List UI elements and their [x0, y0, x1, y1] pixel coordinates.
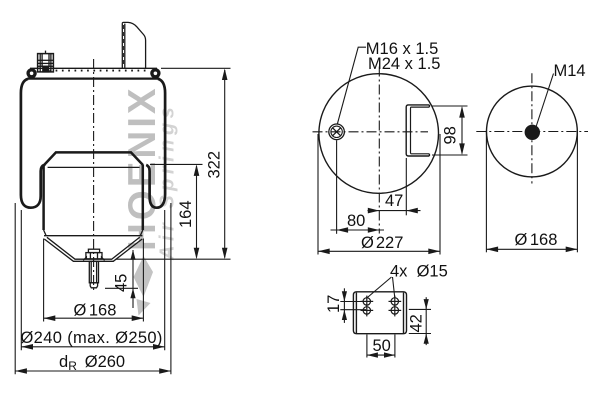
dimension lines for top view [318, 106, 468, 255]
svg-text:164: 164 [177, 200, 195, 228]
bottom circle labels [515, 62, 586, 249]
Ø260 dim [14, 203, 16, 374]
top view dimension labels [347, 40, 460, 252]
side view dimension labels [21, 151, 224, 373]
50 [366, 335, 368, 358]
bottom bracket view with 4 holes [353, 277, 406, 334]
svg-text:47: 47 [385, 192, 403, 210]
bracket channel [406, 105, 429, 156]
45 dim [132, 250, 134, 308]
svg-text:Air Springs: Air Springs [157, 103, 179, 261]
98 [432, 105, 468, 107]
dish / bottom plate [44, 230, 46, 235]
Ø227 [317, 134, 319, 255]
top view of air spring (plate circle) [313, 47, 439, 233]
tab top right [122, 22, 145, 68]
arrowheads for circle dims [486, 247, 577, 253]
stud and nut [83, 249, 104, 288]
arrowheads for bracket dims [342, 291, 429, 358]
air fitting [38, 51, 54, 72]
svg-text:42: 42 [408, 314, 426, 332]
bottom view circle with M14 stud [476, 73, 588, 183]
bracket labels [325, 263, 448, 356]
top plate [30, 67, 157, 69]
svg-text:98: 98 [442, 126, 460, 144]
svg-text:Ø168: Ø168 [515, 231, 558, 249]
piston outline [44, 152, 143, 165]
svg-text:M14: M14 [554, 62, 586, 80]
17 [340, 301, 366, 303]
bellows outline right [146, 79, 165, 208]
42 [409, 308, 431, 310]
dimension lines for bracket view [340, 288, 431, 357]
common bottom extension [116, 258, 231, 260]
leader to M16/M24 [337, 47, 366, 124]
svg-text:M24 x 1.5: M24 x 1.5 [368, 55, 440, 73]
80 [336, 140, 338, 234]
322 dim [161, 67, 231, 69]
47 [405, 158, 407, 215]
watermark PHOENIX logo [121, 85, 179, 315]
arrowheads for top view dims [318, 106, 465, 254]
svg-text:Ø240 (max. Ø250): Ø240 (max. Ø250) [21, 329, 163, 347]
valve [329, 124, 345, 140]
164 dim [150, 163, 203, 165]
svg-text:322: 322 [206, 151, 224, 179]
svg-text:45: 45 [113, 274, 131, 292]
svg-text:17: 17 [325, 295, 343, 313]
dimension lines for bottom view circle [486, 131, 577, 253]
svg-text:Ø168: Ø168 [74, 302, 117, 320]
centerline of side view [93, 59, 95, 290]
svg-text:80: 80 [347, 212, 365, 230]
arrowheads for side view dims [15, 69, 227, 374]
beads [28, 70, 35, 77]
Ø168 dim [43, 239, 45, 322]
dimension lines for side view [15, 68, 230, 374]
svg-text:50: 50 [373, 337, 391, 355]
air spring side view [21, 22, 165, 290]
svg-text:4x Ø15: 4x Ø15 [390, 263, 448, 281]
bellows outline left [21, 79, 45, 208]
leaders 4x Ø15 [367, 277, 392, 298]
svg-text:Ø227: Ø227 [361, 234, 403, 252]
holes [361, 296, 402, 317]
Ø240 dim [20, 210, 22, 350]
